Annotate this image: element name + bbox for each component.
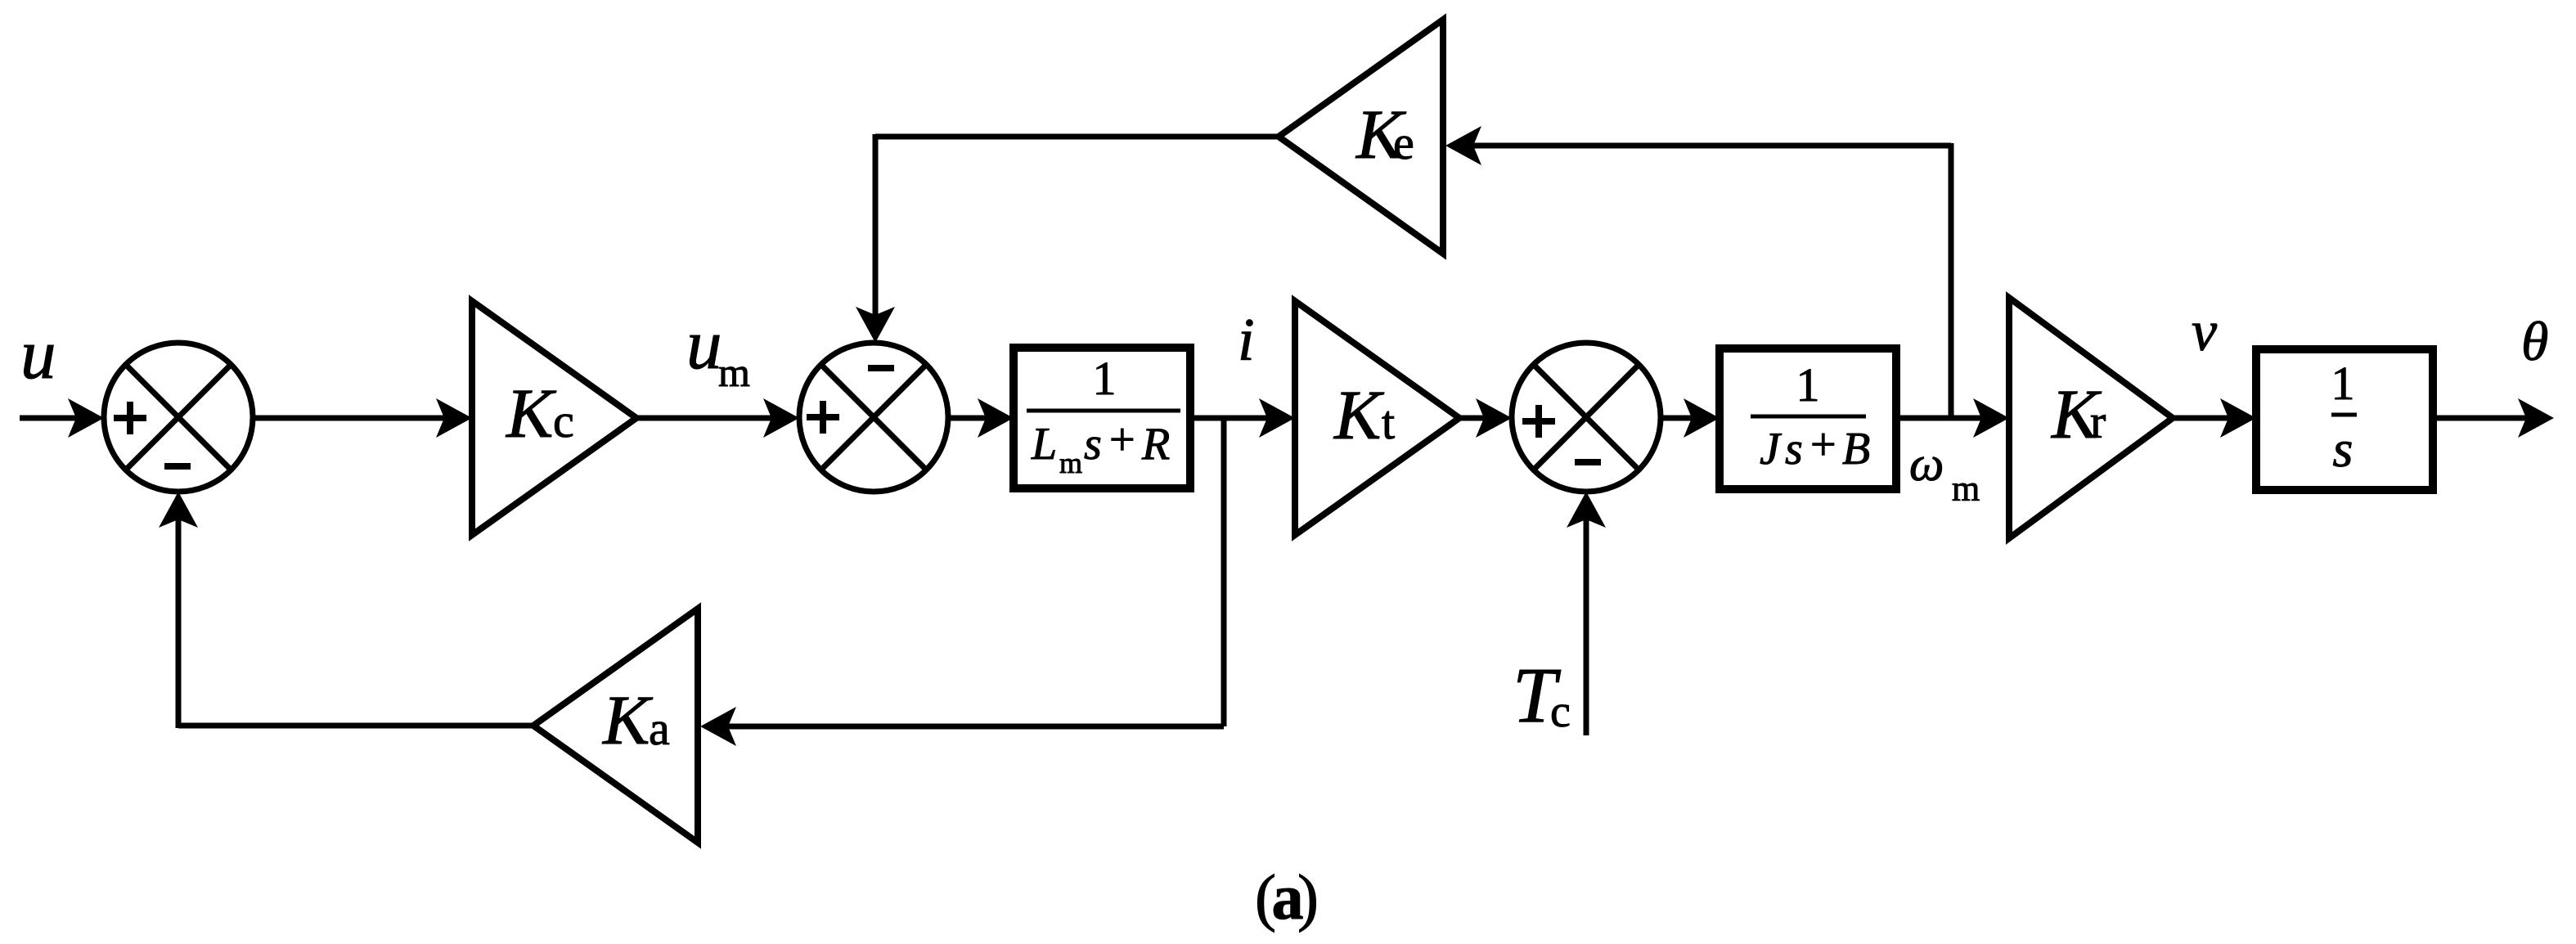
svg-text:1: 1 (1093, 352, 1117, 405)
svg-text:K: K (601, 681, 654, 759)
svg-text:+: + (1810, 420, 1836, 470)
svg-text:e: e (1393, 116, 1414, 169)
svg-text:m: m (1059, 447, 1082, 479)
svg-text:ω: ω (1909, 437, 1944, 491)
svg-text:1: 1 (1796, 358, 1820, 411)
svg-text:R: R (1141, 419, 1170, 470)
svg-text:s: s (2333, 420, 2353, 478)
svg-text:a: a (649, 702, 670, 755)
svg-text:s: s (1785, 424, 1803, 474)
svg-text:K: K (505, 374, 557, 452)
svg-text:m: m (1952, 469, 1980, 509)
svg-text:m: m (718, 349, 750, 395)
svg-text:c: c (553, 394, 574, 447)
svg-text:u: u (20, 314, 56, 393)
svg-text:t: t (1382, 396, 1395, 449)
svg-text:u: u (686, 304, 722, 384)
svg-text:v: v (2192, 300, 2218, 363)
svg-text:1: 1 (2331, 357, 2355, 410)
svg-text:B: B (1842, 424, 1870, 474)
svg-text:c: c (1550, 686, 1571, 737)
svg-text:): ) (1297, 861, 1319, 933)
svg-text:K: K (1333, 375, 1385, 454)
svg-text:+: + (1109, 415, 1135, 465)
svg-text:s: s (1084, 419, 1102, 470)
svg-text:i: i (1238, 307, 1255, 374)
svg-text:L: L (1031, 419, 1057, 470)
svg-text:J: J (1760, 424, 1783, 474)
svg-text:θ: θ (2521, 310, 2548, 372)
svg-text:r: r (2090, 395, 2106, 448)
